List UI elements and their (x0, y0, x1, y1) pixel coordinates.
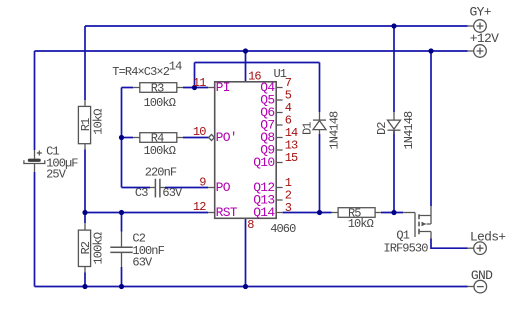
svg-text:D2: D2 (375, 122, 389, 135)
svg-text:10: 10 (193, 125, 206, 139)
pin PO' diamond (209, 134, 215, 140)
resistor R4 (133, 132, 183, 158)
wire +12V rail gray tail (468, 50, 474, 52)
wire PI gray stub (208, 87, 215, 89)
wire RST node to R2 top (84, 213, 86, 224)
wire pin16 (245, 51, 247, 82)
svg-text:16: 16 (248, 70, 261, 84)
capacitor C3 (135, 166, 183, 201)
svg-text:100kΩ: 100kΩ (144, 96, 176, 110)
node pin16 (243, 48, 248, 53)
resistor R1 (78, 100, 105, 150)
wire RST horizontal (85, 212, 208, 214)
node C2 top (119, 210, 124, 215)
wire C3 left lead (122, 187, 151, 189)
svg-text:Q14: Q14 (253, 205, 275, 220)
wire R2 bottom to GND rail (84, 273, 86, 287)
resistor R5 (332, 207, 382, 231)
resistor R2 (78, 223, 105, 273)
svg-text:PO: PO (216, 180, 231, 195)
wire left outer rail to C1 (34, 51, 36, 150)
svg-text:PI: PI (216, 80, 230, 95)
wire GY+ rail gray tail (468, 25, 474, 27)
wire C3 right lead to PO (165, 187, 208, 189)
terminal +12V (470, 31, 499, 57)
svg-text:PO': PO' (216, 130, 237, 145)
node D1 bottom (317, 210, 322, 215)
diode D2 (375, 111, 416, 150)
wire C2 bottom lead (121, 267, 123, 287)
formula T=R4xC3x2^14 (112, 60, 182, 80)
svg-text:4060: 4060 (270, 222, 296, 236)
node C2 bottom (119, 284, 124, 289)
wire C2 top lead (121, 213, 123, 232)
wire Leds+ gray tail (468, 247, 474, 249)
svg-text:Leds+: Leds+ (470, 230, 506, 245)
resistor R3 (133, 82, 183, 110)
wire GND rail (35, 286, 468, 288)
node R2 bottom (82, 284, 87, 289)
capacitor C1 (24, 144, 78, 181)
svg-text:63V: 63V (162, 186, 183, 200)
svg-text:220nF: 220nF (145, 166, 177, 180)
node R1/R2/RST (82, 210, 87, 215)
wire Q14 to R5 (283, 212, 332, 214)
node R3-D1 branch (192, 85, 197, 90)
svg-text:Q1: Q1 (396, 229, 409, 243)
svg-text:25V: 25V (46, 168, 67, 182)
wire R4 right to PO' diamond (183, 137, 209, 139)
IC U1 4060 (215, 67, 296, 236)
svg-text:63V: 63V (132, 255, 153, 269)
node Q1 source (428, 48, 433, 53)
wire R3 right to PI (183, 87, 208, 89)
svg-text:14: 14 (169, 60, 182, 74)
svg-text:T=R4×C3×2: T=R4×C3×2 (112, 65, 169, 79)
wire R4 left stub (122, 137, 134, 139)
svg-text:15: 15 (285, 151, 298, 165)
svg-text:8: 8 (247, 218, 254, 232)
wire node11 up (194, 63, 196, 88)
wire vertical R3/R4/C3 branch (121, 88, 123, 188)
svg-text:3: 3 (285, 201, 292, 215)
wire down to D1 top (319, 63, 321, 113)
svg-text:1N4148: 1N4148 (402, 111, 416, 150)
wire D1 bottom down (319, 134, 321, 213)
svg-text:GY+: GY+ (470, 4, 492, 19)
svg-text:1N4148: 1N4148 (328, 111, 342, 150)
wire PO gray stub (208, 187, 215, 189)
wire Q1 drain to Leds+ (431, 239, 468, 249)
diode D1 (301, 111, 342, 150)
svg-text:+12V: +12V (470, 31, 499, 46)
wire R3 left stub (122, 87, 134, 89)
svg-text:12: 12 (193, 200, 206, 214)
svg-text:10kΩ: 10kΩ (92, 109, 106, 135)
svg-text:11: 11 (193, 76, 206, 90)
wire R1 bottom to RST node (84, 150, 86, 213)
node D2 top (391, 23, 396, 28)
wire GND rail gray tail (468, 286, 474, 288)
wire GY+ rail (85, 25, 468, 27)
svg-text:Q10: Q10 (253, 155, 274, 170)
transistor Q1 IRF9530 (383, 206, 431, 256)
wire left inner rail down to R1 (84, 26, 86, 100)
svg-text:100kΩ: 100kΩ (144, 144, 176, 158)
svg-text:R3: R3 (151, 82, 164, 96)
node pin8 (243, 284, 248, 289)
terminal GND (471, 268, 493, 293)
node D2 bottom (391, 210, 396, 215)
svg-text:C3: C3 (135, 186, 148, 200)
wire RST gray stub (208, 212, 215, 214)
svg-text:10kΩ: 10kΩ (348, 217, 374, 231)
terminal GY+ (470, 4, 492, 32)
svg-text:IRF9530: IRF9530 (383, 242, 428, 256)
wire pin8 (245, 218, 247, 286)
svg-text:D1: D1 (301, 122, 315, 135)
svg-text:RST: RST (216, 205, 238, 220)
terminal Leds+ (470, 230, 506, 255)
svg-text:GND: GND (471, 268, 493, 283)
wire R5 to gate (381, 212, 403, 214)
svg-text:9: 9 (199, 175, 206, 189)
wire D2 bottom (393, 131, 395, 213)
svg-text:100kΩ: 100kΩ (92, 232, 106, 264)
wire Q1 source from +12V (430, 51, 432, 206)
capacitor C2 (110, 232, 164, 270)
node R4 branch (119, 135, 124, 140)
wire over to D1 (195, 62, 320, 64)
pin stubs Q4-Q14 (276, 88, 282, 213)
wire D2 top (393, 26, 395, 112)
wire C1 bottom to GND rail (34, 172, 36, 287)
wire +12V rail (35, 50, 468, 52)
